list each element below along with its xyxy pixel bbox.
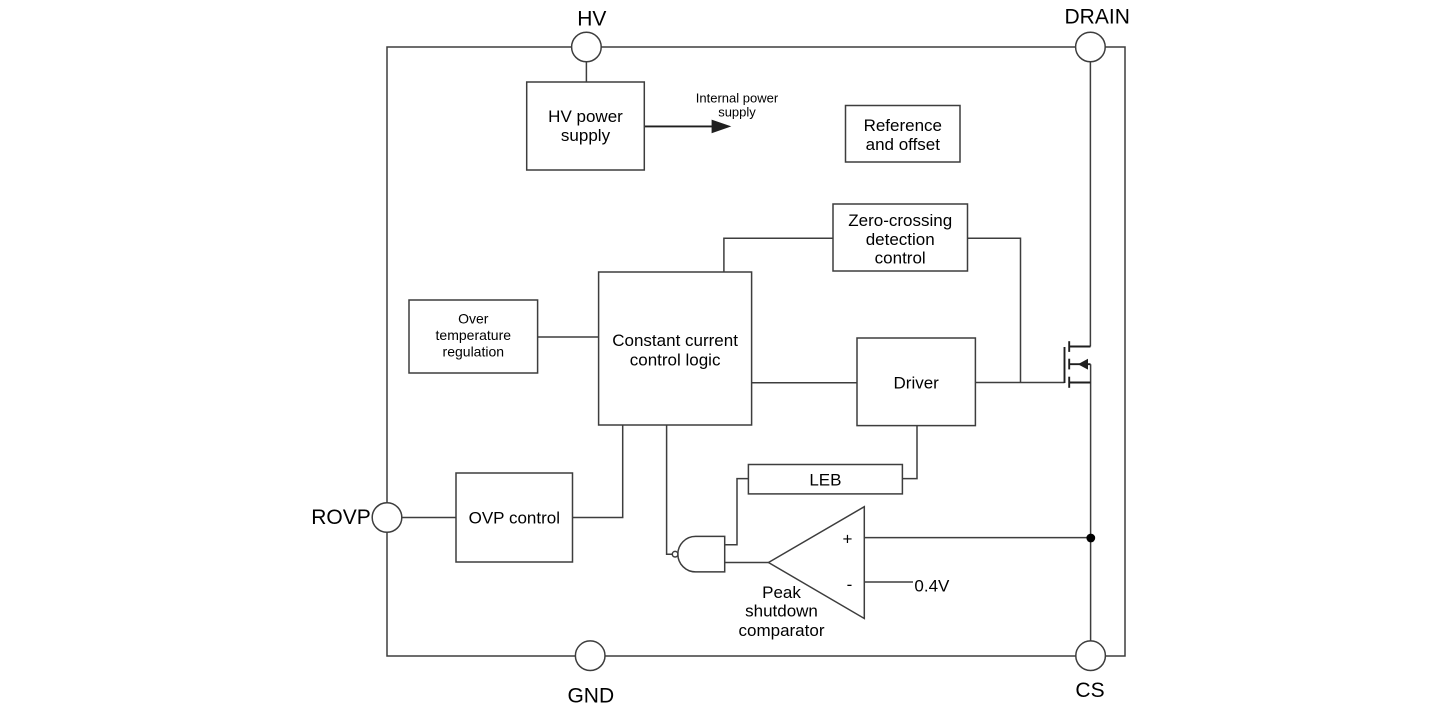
svg-text:and offset: and offset [866, 135, 941, 154]
svg-text:temperature: temperature [436, 327, 512, 343]
svg-text:regulation: regulation [443, 344, 505, 360]
svg-text:Driver: Driver [894, 374, 940, 393]
svg-text:Reference: Reference [864, 116, 942, 135]
svg-text:control logic: control logic [630, 351, 721, 370]
svg-text:Peak: Peak [762, 583, 801, 602]
svg-text:HV: HV [577, 8, 606, 31]
svg-text:GND: GND [567, 685, 614, 708]
svg-text:supply: supply [718, 105, 756, 120]
svg-text:ROVP: ROVP [311, 506, 371, 529]
svg-text:shutdown: shutdown [745, 602, 818, 621]
svg-text:comparator: comparator [739, 621, 825, 640]
svg-text:Over: Over [458, 311, 489, 327]
svg-text:detection: detection [866, 230, 935, 249]
svg-text:OVP control: OVP control [469, 508, 560, 527]
svg-text:0.4V: 0.4V [914, 576, 950, 595]
svg-text:Internal power: Internal power [696, 91, 779, 106]
svg-text:+: + [843, 530, 853, 549]
svg-text:CS: CS [1075, 679, 1104, 702]
svg-text:HV power: HV power [548, 107, 623, 126]
svg-text:DRAIN: DRAIN [1065, 6, 1130, 29]
svg-text:Zero-crossing: Zero-crossing [848, 211, 952, 230]
svg-text:control: control [875, 249, 926, 268]
svg-text:LEB: LEB [809, 471, 841, 490]
svg-text:supply: supply [561, 126, 611, 145]
svg-text:Constant current: Constant current [612, 331, 738, 350]
svg-text:-: - [847, 575, 853, 594]
